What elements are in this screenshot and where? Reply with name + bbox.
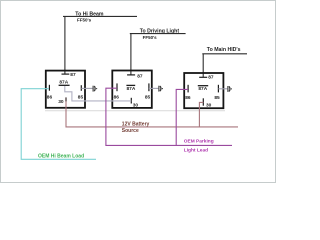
K3 pin 85 terminal: [217, 85, 219, 93]
wire To Hi Beam feed to K1 pin 87: [63, 16, 137, 74]
node OEM Parking Light Lead (label): [184, 138, 214, 153]
K2 pin 30 terminal: [130, 98, 132, 104]
svg-text:86: 86: [114, 95, 120, 101]
svg-text:12V Battery: 12V Battery: [122, 122, 150, 128]
svg-text:85: 85: [214, 95, 220, 101]
svg-text:87A: 87A: [198, 86, 207, 92]
wire 12V battery bus (red): [66, 101, 238, 127]
node To Hi Beam (label): [75, 12, 104, 23]
svg-text:30: 30: [133, 103, 139, 109]
K1 pin 87a contact bar: [59, 84, 70, 86]
svg-text:Source: Source: [122, 128, 139, 134]
svg-text:Light Lead: Light Lead: [184, 147, 208, 153]
K2 pin 85 terminal: [148, 83, 150, 91]
K2 pin 87 contact: [127, 74, 135, 76]
svg-text:FF50's: FF50's: [143, 35, 158, 40]
wire OEM parking bus to K3-86 (purple): [176, 89, 188, 145]
wire To Main HID's feed to K3 pin 87: [202, 54, 247, 78]
K2 pin 86 terminal: [116, 83, 118, 91]
K1 pin 85 lead wire: [81, 87, 92, 89]
wire K2-86 to OEM parking bus (purple): [106, 88, 232, 145]
svg-text:87: 87: [70, 72, 76, 78]
wire K1-87a to K2-30 (grey): [65, 86, 132, 101]
svg-text:30: 30: [58, 99, 64, 105]
K1 pin 87 contact: [62, 73, 70, 75]
K3 pin 86 terminal: [187, 85, 189, 93]
svg-text:85: 85: [145, 95, 151, 101]
svg-text:30: 30: [206, 102, 212, 108]
wire K1-86 to OEM Hi Beam load (cyan): [21, 89, 96, 160]
svg-text:87: 87: [137, 73, 143, 79]
K3 pin 87 contact: [199, 76, 207, 78]
node To Main HID's (label): [207, 47, 241, 53]
K3 pin 30 terminal: [202, 98, 204, 105]
svg-text:OEM Parking: OEM Parking: [184, 138, 214, 144]
relay K2 (Driving Light FF50): [112, 71, 152, 108]
svg-text:86: 86: [47, 95, 53, 101]
svg-text:85: 85: [78, 94, 84, 100]
node To Driving Light (label): [140, 29, 180, 41]
node 12V Battery Source (label): [122, 122, 150, 134]
svg-text:87: 87: [208, 75, 214, 81]
K3 pin 85 lead wire: [218, 88, 227, 90]
relay K3 (Main HIDs): [184, 73, 223, 108]
svg-text:OEM Hi Beam Load: OEM Hi Beam Load: [38, 153, 84, 159]
relay K1 (Hi Beam FF50): [46, 71, 85, 108]
K2 pin 85 lead wire: [149, 87, 159, 89]
svg-text:FF50's: FF50's: [77, 18, 92, 23]
K2 pin 85 connector: [159, 86, 163, 92]
K1 pin 86 terminal: [48, 85, 50, 91]
svg-text:To Main HID's: To Main HID's: [207, 47, 241, 53]
shadow row under relays: [45, 110, 225, 112]
K3 pin 85 connector: [228, 86, 232, 92]
K1 pin 30 terminal: [65, 97, 67, 101]
K2 pin 87a contact bar: [126, 84, 135, 86]
svg-text:86: 86: [185, 95, 191, 101]
K1 pin 85 terminal: [80, 85, 82, 91]
svg-text:87A: 87A: [127, 86, 136, 92]
svg-text:87A: 87A: [59, 79, 68, 85]
K3 pin 87a contact bar: [198, 85, 208, 87]
K1 pin 85 connector: [93, 86, 97, 92]
wire K3-30 to 12V bus (red): [199, 102, 203, 127]
wire To Driving Light feed to K2 pin 87: [130, 34, 186, 75]
